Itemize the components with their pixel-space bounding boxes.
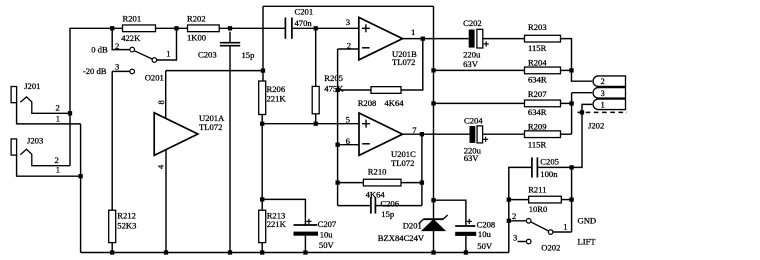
svg-text:2: 2 [347, 40, 351, 50]
svg-text:LIFT: LIFT [578, 236, 597, 246]
svg-text:R211: R211 [528, 184, 546, 194]
svg-text:1: 1 [411, 27, 415, 37]
svg-text:J203: J203 [27, 135, 43, 145]
svg-text:C202: C202 [463, 18, 482, 28]
svg-text:63V: 63V [464, 153, 480, 163]
svg-text:470n: 470n [295, 18, 313, 28]
svg-text:221K: 221K [267, 93, 287, 103]
svg-text:R205: R205 [324, 73, 343, 83]
svg-text:10R0: 10R0 [529, 204, 548, 214]
svg-text:3: 3 [601, 89, 605, 98]
svg-text:15p: 15p [242, 50, 255, 60]
svg-text:4K64: 4K64 [366, 190, 386, 200]
svg-text:R207: R207 [528, 89, 547, 99]
svg-text:15p: 15p [381, 209, 394, 219]
svg-text:2: 2 [56, 103, 60, 113]
svg-text:50V: 50V [477, 241, 493, 251]
svg-text:4K64: 4K64 [385, 98, 405, 108]
svg-text:10u: 10u [320, 229, 334, 239]
svg-text:TL072: TL072 [392, 57, 415, 67]
svg-text:3: 3 [346, 17, 350, 27]
svg-text:C203: C203 [198, 50, 217, 60]
svg-text:50V: 50V [319, 240, 335, 250]
svg-text:0 dB: 0 dB [91, 44, 108, 54]
svg-text:R210: R210 [368, 167, 387, 177]
svg-text:-20 dB: -20 dB [83, 66, 107, 76]
svg-text:5: 5 [346, 115, 350, 125]
svg-text:2: 2 [601, 77, 605, 86]
svg-text:1: 1 [601, 100, 605, 109]
svg-text:C206: C206 [380, 199, 399, 209]
svg-text:52K3: 52K3 [117, 221, 136, 231]
svg-text:10u: 10u [478, 229, 492, 239]
svg-text:C208: C208 [477, 220, 496, 230]
svg-text:C204: C204 [464, 116, 483, 126]
svg-text:BZX84C24V: BZX84C24V [378, 233, 425, 243]
svg-text:J202: J202 [588, 121, 604, 131]
svg-text:C201: C201 [295, 6, 314, 16]
svg-text:100n: 100n [540, 169, 558, 179]
svg-text:63V: 63V [463, 59, 479, 69]
svg-text:2: 2 [115, 41, 119, 51]
svg-text:3: 3 [115, 62, 119, 72]
svg-text:1: 1 [166, 49, 170, 59]
svg-text:6: 6 [346, 136, 351, 146]
svg-text:634R: 634R [528, 107, 547, 117]
svg-text:4: 4 [155, 164, 165, 169]
svg-text:475K: 475K [324, 84, 344, 94]
svg-text:TL072: TL072 [199, 122, 222, 132]
svg-text:1: 1 [56, 165, 60, 175]
svg-text:115R: 115R [528, 43, 547, 53]
svg-text:221K: 221K [267, 219, 287, 229]
svg-text:TL072: TL072 [391, 158, 414, 168]
svg-text:R208: R208 [358, 98, 377, 108]
svg-text:R203: R203 [528, 22, 547, 32]
svg-text:J201: J201 [24, 81, 40, 91]
svg-text:7: 7 [412, 125, 417, 135]
svg-text:2: 2 [55, 155, 59, 165]
svg-text:R202: R202 [187, 13, 206, 23]
svg-text:D201: D201 [403, 220, 422, 230]
svg-text:1K00: 1K00 [187, 32, 206, 42]
svg-text:2: 2 [512, 211, 516, 221]
svg-text:R204: R204 [528, 58, 547, 68]
svg-text:R209: R209 [528, 121, 547, 131]
svg-text:GND: GND [578, 216, 597, 226]
svg-text:115R: 115R [528, 140, 547, 150]
svg-text:O202: O202 [541, 242, 560, 252]
svg-text:1: 1 [56, 113, 60, 123]
svg-text:C207: C207 [318, 219, 337, 229]
svg-text:1: 1 [563, 221, 567, 231]
svg-text:R201: R201 [123, 13, 142, 23]
svg-text:3: 3 [513, 232, 517, 242]
svg-text:8: 8 [156, 100, 166, 104]
svg-text:R212: R212 [117, 210, 136, 220]
svg-text:O201: O201 [145, 73, 164, 83]
svg-text:634R: 634R [528, 75, 547, 85]
svg-text:C205: C205 [540, 156, 559, 166]
svg-text:422K: 422K [121, 33, 141, 43]
